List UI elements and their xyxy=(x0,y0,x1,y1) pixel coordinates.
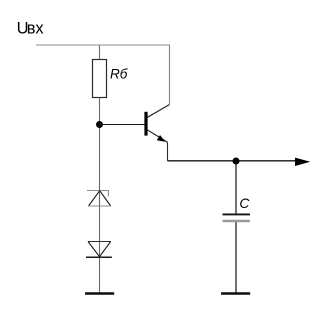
wire resistor down to ground through diodes xyxy=(99,98,101,293)
wire capacitor to ground xyxy=(235,222,237,292)
ground right xyxy=(221,292,250,295)
output arrow head xyxy=(295,158,310,166)
diode VD1 zener cathode bar with hook xyxy=(87,191,109,197)
node junction dot output xyxy=(233,158,240,165)
wire output xyxy=(168,160,296,162)
transistor Q1 emitter arrow xyxy=(157,135,165,142)
capacitor C top plate xyxy=(223,213,251,215)
diode VD1 zener triangle xyxy=(89,191,111,206)
diode VD2 triangle xyxy=(88,242,111,257)
transistor Q1 emitter diagonal xyxy=(148,130,168,142)
resistor R6 body xyxy=(93,60,107,98)
transistor Q1 collector diagonal xyxy=(148,105,170,118)
wire node to capacitor xyxy=(235,161,237,214)
capacitor C bottom plate xyxy=(223,220,251,223)
node junction dot base xyxy=(96,121,103,128)
diode VD1 zener triangle base xyxy=(88,205,111,207)
wire emitter vertical xyxy=(167,142,169,161)
diode VD2 triangle top edge xyxy=(88,241,111,243)
svg-text:C: C xyxy=(239,196,250,211)
diode VD2 cathode bar xyxy=(86,256,112,258)
svg-text:Uвх: Uвх xyxy=(17,19,45,37)
ground left xyxy=(85,292,114,295)
wire top rail xyxy=(36,44,170,46)
wire rail to resistor xyxy=(99,45,101,60)
transistor Q1 base bar xyxy=(144,112,147,136)
wire collector vertical xyxy=(169,45,172,105)
svg-text:Rб: Rб xyxy=(110,67,128,82)
wire base xyxy=(100,124,145,126)
